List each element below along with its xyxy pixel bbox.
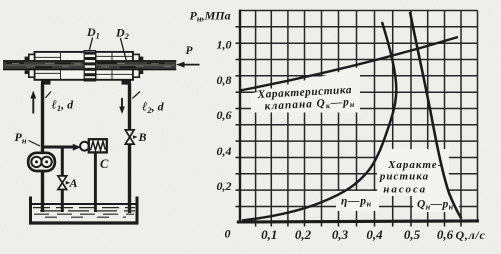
svg-text:ℓ2, d: ℓ2, d	[142, 100, 165, 116]
valve characteristic text	[256, 84, 355, 114]
flow arrow down	[121, 98, 123, 109]
pipe l2 (right vertical)	[128, 84, 131, 130]
svg-text:0,2: 0,2	[217, 179, 232, 193]
valve C drain wire	[94, 152, 97, 212]
tank liquid surface	[32, 203, 136, 205]
pump characteristic curve	[410, 12, 462, 219]
cylinder body	[29, 52, 140, 80]
piston D1 (striped)	[84, 51, 95, 81]
rod texture	[5, 63, 175, 68]
svg-text:Характе-: Характе-	[387, 159, 442, 171]
y axis labels	[217, 38, 232, 194]
svg-text:1,0: 1,0	[217, 38, 232, 52]
label l2,d	[132, 92, 140, 99]
y axis	[239, 10, 241, 223]
svg-text:A: A	[69, 176, 78, 190]
svg-text:0: 0	[225, 227, 231, 241]
label box Qn-pn	[413, 194, 459, 212]
svg-text:Pн,МПа: Pн,МПа	[190, 9, 231, 24]
tank	[29, 197, 139, 225]
relief valve C nozzle	[73, 144, 81, 151]
x axis	[237, 221, 479, 222]
pipe l1 (left vertical)	[41, 84, 44, 212]
label box eta	[336, 191, 379, 211]
relief valve C ball	[80, 142, 89, 151]
svg-text:насоса: насоса	[383, 184, 427, 196]
x axis labels	[261, 227, 453, 242]
svg-text:P: P	[186, 45, 194, 57]
svg-text:0,8: 0,8	[217, 73, 232, 87]
label box valve characteristic	[251, 67, 360, 113]
svg-text:0,3: 0,3	[332, 227, 349, 242]
svg-text:0,5: 0,5	[404, 227, 421, 242]
svg-text:0,1: 0,1	[261, 227, 277, 242]
svg-text:Qн—pн: Qн—pн	[417, 199, 454, 212]
valve A branch wire	[61, 147, 64, 176]
left port stub	[41, 80, 51, 85]
svg-text:C: C	[100, 157, 109, 171]
svg-text:ристика: ристика	[379, 171, 429, 183]
valve characteristic curve	[240, 37, 458, 91]
svg-text:0,2: 0,2	[295, 227, 312, 242]
gland seal tabs	[25, 57, 144, 74]
svg-text:ℓ1, d: ℓ1, d	[52, 98, 75, 114]
label l1,d	[45, 92, 51, 99]
force arrow P	[180, 64, 200, 66]
svg-text:0,6: 0,6	[437, 227, 454, 242]
valve B	[125, 130, 134, 144]
svg-text:B: B	[138, 130, 147, 144]
svg-text:0,6: 0,6	[217, 108, 232, 122]
svg-text:Q,л/с: Q,л/с	[456, 228, 486, 242]
piston rod	[3, 60, 176, 70]
valve A	[58, 176, 67, 190]
axis tick marks	[236, 27, 462, 227]
svg-text:0,4: 0,4	[366, 227, 383, 242]
cylinder bore lines	[35, 52, 134, 80]
flow arrow up	[32, 95, 34, 114]
manifold wire	[41, 146, 75, 149]
right port stub	[122, 80, 132, 85]
label box pump characteristic	[377, 149, 449, 196]
pump (gear pump)	[28, 153, 55, 171]
svg-text:0,4: 0,4	[217, 144, 232, 158]
relief valve C spring box	[89, 139, 107, 152]
efficiency curve	[242, 22, 396, 221]
